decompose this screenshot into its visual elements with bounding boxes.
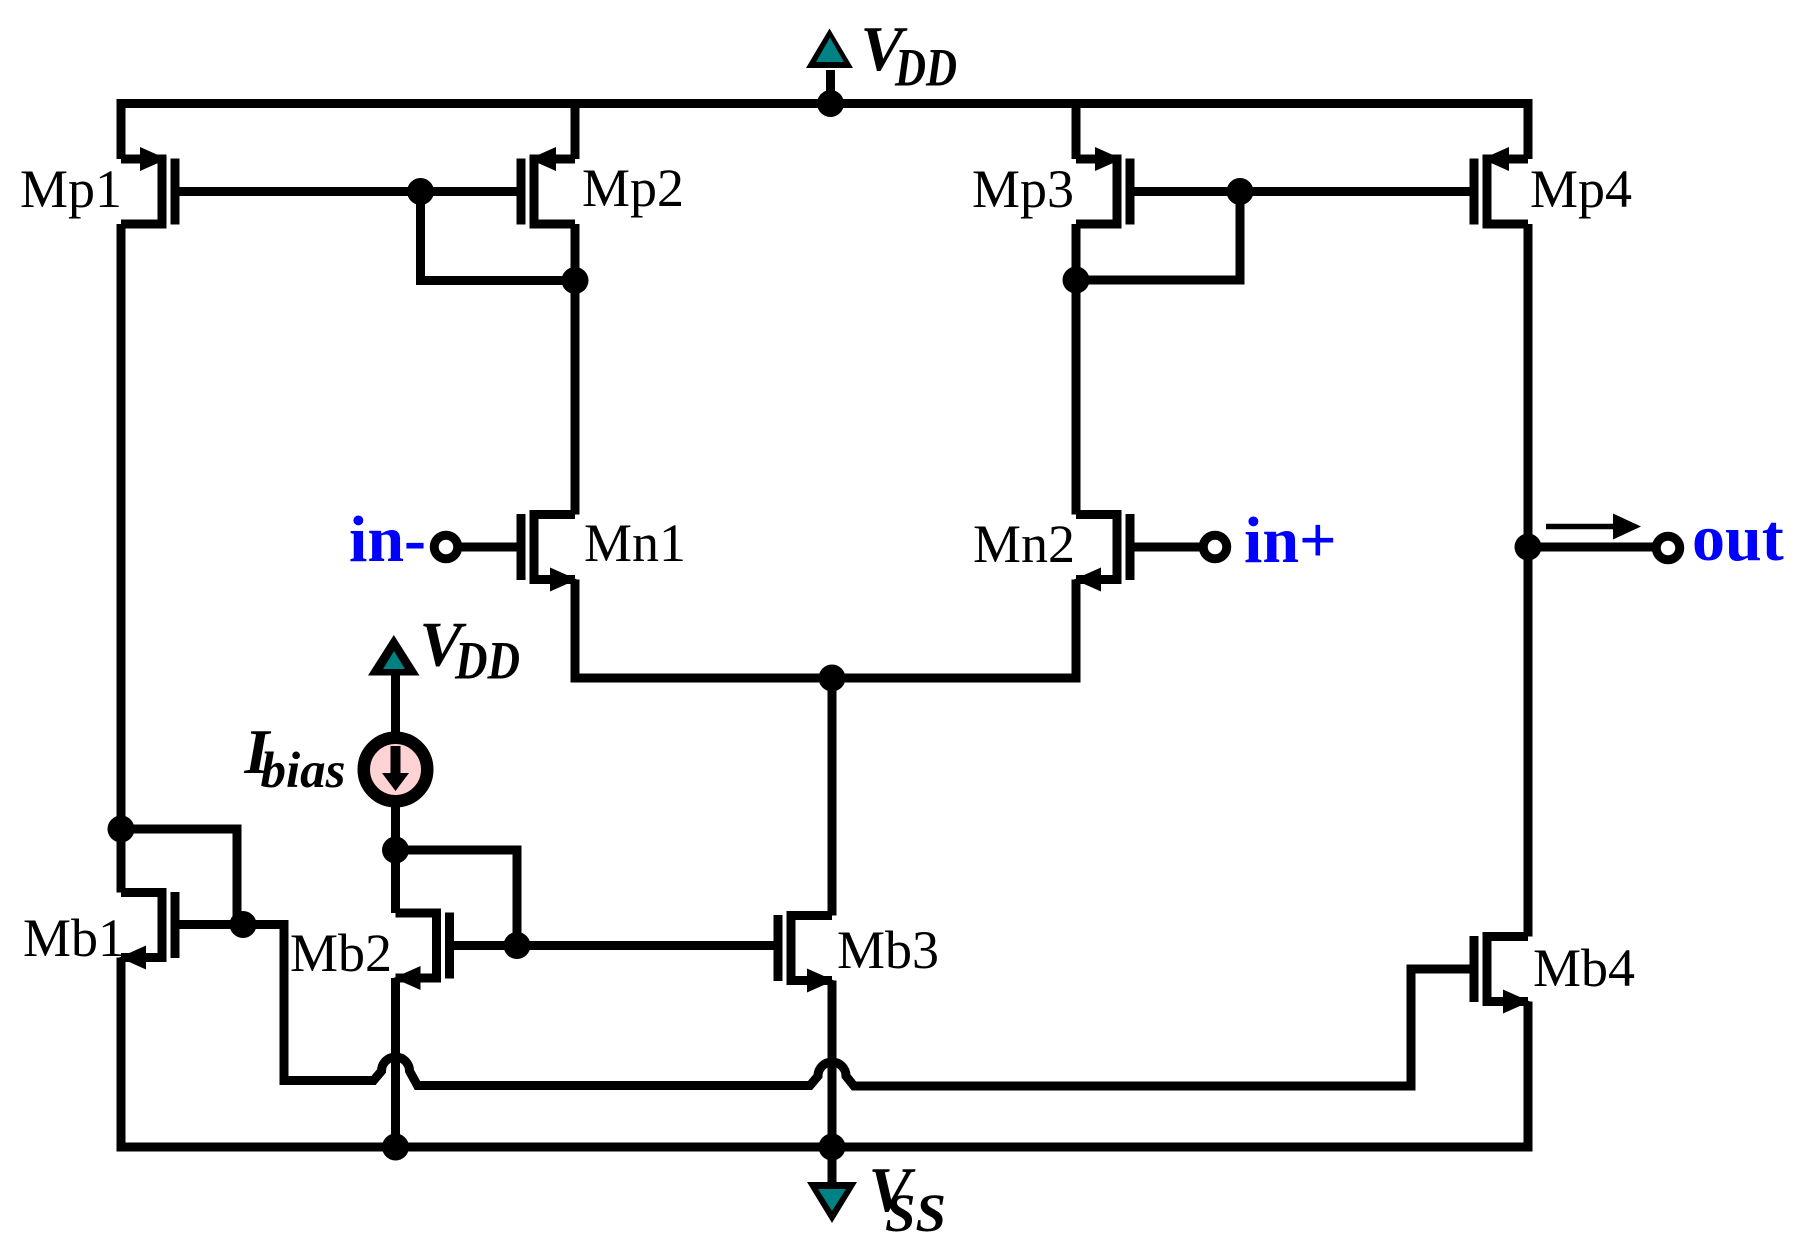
- out direction arrow: [1546, 514, 1641, 540]
- wire Mb2 source to rail: [391, 978, 400, 1147]
- wire Mp2 gate-drain loop: [421, 192, 576, 281]
- transistor Mb2: [394, 909, 450, 991]
- node Mp2 drain: [562, 267, 589, 294]
- svg-text:Mp3: Mp3: [972, 159, 1074, 219]
- svg-text:Mp1: Mp1: [20, 159, 122, 219]
- terminal out: [1656, 536, 1680, 560]
- node out: [1515, 534, 1542, 561]
- transistor Mb1: [119, 888, 175, 970]
- wire bottom rail VSS: [121, 958, 1528, 1148]
- wire Ibias node to Mb2 gate node: [396, 850, 518, 946]
- terminal in-: [434, 535, 458, 559]
- VDD power symbol top: [806, 29, 853, 69]
- wire Mn2 gate to in+ terminal: [1130, 543, 1202, 552]
- node Mb1 drain tap: [108, 816, 135, 843]
- wire right column Mp4 drain to Mb4 drain: [1524, 224, 1533, 937]
- current source Ibias: [364, 738, 428, 802]
- transistor Mp3: [1076, 147, 1130, 229]
- wire Ibias to Mb2 drain: [391, 803, 400, 913]
- node VSS rail junction: [819, 1134, 846, 1161]
- VSS power symbol: [807, 1182, 857, 1223]
- VDD power symbol middle: [368, 635, 420, 676]
- wire Mp2 drain to Mn1 drain: [571, 224, 580, 515]
- wire Mp2 source drop: [571, 104, 580, 160]
- wire gate bus Mp3-Mp4: [1130, 187, 1474, 196]
- svg-text:DD: DD: [894, 38, 957, 98]
- node VDD rail junction: [817, 90, 844, 117]
- wire VSS stem: [828, 1147, 837, 1184]
- transistor Mb3: [778, 911, 834, 993]
- wire Mb3 source to rail: [828, 981, 837, 1148]
- node tail: [819, 665, 846, 692]
- wire out node: [1528, 543, 1654, 552]
- wire Mb1 gate bus with crossover hops to Mb4 gate: [175, 925, 1474, 1087]
- wire Mp3 gate-drain loop: [1076, 192, 1240, 281]
- wire tail to Mb3 drain: [828, 678, 837, 916]
- wire tail node: [575, 580, 1076, 679]
- svg-text:Mb3: Mb3: [837, 920, 939, 980]
- svg-text:SS: SS: [885, 1183, 946, 1243]
- transistor Mn2: [1074, 510, 1130, 592]
- svg-text:bias: bias: [261, 743, 346, 799]
- node Ibias: [382, 837, 409, 864]
- node Mb2 source at rail: [382, 1134, 409, 1161]
- wire gate bus Mp1-Mp2: [175, 187, 521, 196]
- wire VDD top rail: [121, 104, 1528, 160]
- node Mb2 gate: [504, 932, 531, 959]
- transistor Mp4: [1474, 147, 1528, 229]
- svg-text:Mp4: Mp4: [1530, 159, 1632, 219]
- transistor Mp1: [121, 147, 175, 229]
- svg-text:Mn2: Mn2: [973, 514, 1075, 574]
- wire left column Mp1 drain to Mb1 drain: [117, 224, 126, 893]
- svg-text:in-: in-: [349, 503, 426, 576]
- node Mp3-Mp4 gate: [1227, 178, 1254, 205]
- terminal in+: [1203, 535, 1227, 559]
- svg-text:Mb4: Mb4: [1533, 938, 1635, 998]
- svg-text:out: out: [1692, 502, 1784, 575]
- node junction dots: [108, 90, 1542, 1161]
- node Mp3 drain: [1063, 267, 1090, 294]
- svg-text:Mb2: Mb2: [290, 923, 392, 983]
- node Mb1 gate: [230, 911, 257, 938]
- svg-text:Mb1: Mb1: [23, 908, 125, 968]
- wire Mp3 drain to Mn2 drain: [1072, 224, 1081, 515]
- wire in- terminal to Mn1 gate: [460, 543, 521, 552]
- transistor Mn1: [521, 510, 577, 592]
- svg-text:DD: DD: [454, 631, 520, 691]
- svg-text:Mp2: Mp2: [582, 158, 684, 218]
- wire gate bus Mb2-Mb3: [450, 941, 779, 950]
- svg-text:Mn1: Mn1: [584, 513, 686, 573]
- svg-text:in+: in+: [1244, 504, 1337, 577]
- wire Ibias stem from VDD triangle: [391, 675, 400, 735]
- transistor Mp2: [521, 147, 575, 229]
- wire Mp3 source drop: [1072, 104, 1081, 160]
- node Mp1-Mp2 gate: [407, 178, 434, 205]
- wire VDD stem: [826, 70, 835, 104]
- wire Mb1 drain-gate tap: [121, 829, 237, 925]
- transistor Mb4: [1474, 932, 1530, 1014]
